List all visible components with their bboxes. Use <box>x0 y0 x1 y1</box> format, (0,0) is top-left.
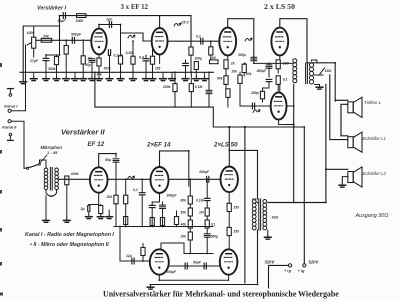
ground lower 1 <box>147 285 154 289</box>
resistor chain-A 3 <box>188 220 192 228</box>
ground bus 13 <box>149 77 156 81</box>
capacitor 500pF coupling <box>72 37 74 43</box>
wire mid right cap leads <box>268 63 270 65</box>
resistor chain-A 4 <box>188 232 192 240</box>
resistor 100 ls50 cathode <box>210 60 219 64</box>
coil Tin primary <box>44 168 48 190</box>
svg-text:280µ: 280µ <box>250 91 259 95</box>
wire V6 cathode <box>98 193 100 205</box>
wire cathode V2 res leads <box>152 50 154 56</box>
wire switch to transformer <box>40 160 47 168</box>
wire Kanal II to input switch <box>11 121 24 166</box>
wire long B+ vertical <box>244 127 246 283</box>
svg-text:2×LS 50: 2×LS 50 <box>213 142 238 149</box>
capacitor 50u V6 anode <box>113 159 119 162</box>
ground T-in left <box>43 218 50 222</box>
svg-text:EF 12: EF 12 <box>88 141 105 148</box>
wire 300k leads <box>56 55 58 57</box>
svg-text:12µ: 12µ <box>126 254 132 258</box>
resistor cathode V1 <box>97 58 101 66</box>
svg-text:17µF: 17µF <box>30 59 39 63</box>
svg-text:9,1: 9,1 <box>283 78 288 82</box>
wire bottom run <box>150 284 258 286</box>
svg-text:300µF: 300µF <box>166 270 177 274</box>
resistor cathode V6 <box>99 206 103 214</box>
wire L2 ground stub <box>342 177 348 183</box>
wire splitter parts <box>185 60 187 63</box>
scan mark bottom left <box>0 293 3 296</box>
resistor 50k bleeder <box>224 76 228 85</box>
resistor 50k anode load V1 <box>118 56 122 64</box>
svg-text:520V: 520V <box>309 259 320 264</box>
capacitor 280u <box>266 79 272 81</box>
wire V1 anode <box>99 25 121 29</box>
wire cathode cap V1 lead <box>91 62 93 72</box>
signal arrow V6-V7 <box>128 176 135 179</box>
svg-text:20k: 20k <box>231 70 239 74</box>
capacitor mid right <box>266 65 272 68</box>
resistor cathode LS50-2 <box>276 60 280 69</box>
capacitor 2uF cathode V6 <box>88 206 90 212</box>
wire cath v7 <box>152 201 159 203</box>
wire LS50-1 anode loop <box>228 19 254 57</box>
svg-text:1M: 1M <box>199 211 204 215</box>
svg-text:50µF: 50µF <box>58 19 67 23</box>
svg-text:2 x LS 50: 2 x LS 50 <box>264 2 295 11</box>
svg-text:Eckmiller L2: Eckmiller L2 <box>363 171 387 176</box>
ground bus 16 <box>182 77 189 81</box>
capacitor 50uF feedback <box>63 13 65 19</box>
resistor 0.1M right <box>189 84 193 92</box>
wire middle column top <box>253 57 255 64</box>
wire T-in bottom loop <box>46 190 57 197</box>
resistor chain-B 3 <box>205 220 209 228</box>
svg-text:30Ω: 30Ω <box>272 216 279 220</box>
wire LS50-2 cathode <box>279 56 281 60</box>
wire chain-B spine <box>206 179 208 198</box>
wire T1 top to speaker rail <box>312 60 317 63</box>
coil T2 primary <box>252 200 256 230</box>
resistor mid 50k <box>242 64 246 72</box>
svg-text:1 : 45: 1 : 45 <box>47 150 58 155</box>
svg-text:100: 100 <box>210 56 216 60</box>
tube V3 EF12 phase splitter <box>271 92 287 119</box>
tube V9 EF14 <box>150 249 169 274</box>
wire stopper to V10 <box>228 236 230 250</box>
wire mid col to transformer <box>254 62 293 64</box>
wire L2 feed branch <box>326 168 348 170</box>
capacitor 12u V9 grid <box>132 258 134 264</box>
wire V6 output line <box>108 178 151 180</box>
wire lower bus <box>114 226 213 228</box>
resistor 150 grid stopper 2 <box>227 227 231 235</box>
wire V2 output line <box>168 40 220 42</box>
capacitor 17uF <box>43 58 49 60</box>
wire grid leak stub <box>142 244 144 248</box>
svg-text:50k: 50k <box>181 211 187 215</box>
svg-text:6,4: 6,4 <box>139 55 144 59</box>
wire 280u lead <box>268 82 270 88</box>
transformer T2 core <box>259 199 261 230</box>
svg-text:300k: 300k <box>48 67 57 71</box>
wire V1 cathode <box>98 54 100 58</box>
wire cap leads v6 <box>141 179 143 192</box>
junction dots on signal and bus lines <box>59 39 61 41</box>
ground 400k <box>64 218 71 222</box>
resistor bus row 4 <box>174 217 178 225</box>
svg-text:20k: 20k <box>180 235 187 239</box>
wire V1 anode load <box>120 25 122 56</box>
svg-text:200k: 200k <box>162 85 172 89</box>
resistor 20k splitter <box>238 75 242 83</box>
resistor screen LS50-2 <box>276 76 280 85</box>
svg-text:500µ: 500µ <box>104 66 111 70</box>
wire mid 50k leads <box>243 62 245 65</box>
resistor below 50k <box>226 89 230 98</box>
svg-text:Universalverstärker für Mehrka: Universalverstärker für Mehrkanal- und s… <box>103 289 339 298</box>
ground bus 14 <box>160 77 167 81</box>
wire T-in left leg <box>45 196 47 218</box>
signal arrow after V1 <box>128 35 135 38</box>
resistor 300 splitter <box>194 62 198 70</box>
wire between stoppers <box>228 212 230 228</box>
wire ecap elbow leads <box>208 72 210 90</box>
wire 50k bleeder leads <box>225 72 227 76</box>
capacitor cathode V7 <box>149 205 155 207</box>
wire LS50-2 cathode lead <box>277 69 279 73</box>
resistor 1M <box>81 56 85 64</box>
wire V6 anode cap lead <box>115 162 117 195</box>
svg-text:300µ: 300µ <box>238 53 246 57</box>
ground bus 6 <box>80 77 87 81</box>
tube V7 EF14 <box>151 167 169 193</box>
svg-text:Kanal II: Kanal II <box>2 125 17 130</box>
wire T1 secondary drop 1 <box>330 75 348 140</box>
wire grid res V3 leads <box>210 41 212 47</box>
wire 0.5M leads <box>125 179 127 195</box>
ground bus 3 <box>53 77 60 81</box>
wire cathode verticals <box>88 205 90 206</box>
svg-text:80k: 80k <box>181 199 187 203</box>
resistor chain-A 1 <box>188 196 192 204</box>
svg-text:500µ: 500µ <box>211 235 219 239</box>
ground bus 2 <box>43 77 50 81</box>
wire V9 to V10 coupling <box>169 265 220 267</box>
ground L2 <box>339 183 346 187</box>
wire V2 cathode components <box>159 55 161 64</box>
speaker Tiefton L <box>348 97 362 117</box>
resistor bus row 1 <box>124 217 128 225</box>
junction anode branch <box>228 126 230 128</box>
svg-text:380µF: 380µF <box>257 69 268 73</box>
scan mark left edge 5 <box>0 262 2 266</box>
svg-text:Tiefton L: Tiefton L <box>364 100 382 105</box>
capacitor coupling V2-V3 <box>201 38 203 44</box>
coil T1 secondary <box>309 63 313 84</box>
wire 200k leads <box>174 72 176 83</box>
svg-text:200: 200 <box>106 195 113 199</box>
tube V8 LS50 <box>221 167 238 193</box>
wire below-50k lead <box>227 97 229 107</box>
svg-text:Ausgang 30Ω: Ausgang 30Ω <box>355 213 389 219</box>
capacitor near step elbow <box>206 90 212 93</box>
resistor 0.2M <box>131 56 135 64</box>
wire stub g3 <box>108 210 110 215</box>
wire top-amp ground bus <box>20 71 213 73</box>
capacitor chain-B 1 <box>204 198 210 200</box>
wire cathode res V1 lead <box>98 66 100 72</box>
potentiometer 1000-ohm volume <box>27 26 36 57</box>
speaker Eckmiller L1 <box>348 132 362 152</box>
wire V8 anode rail <box>229 150 257 199</box>
svg-text:165: 165 <box>155 66 161 70</box>
ground V6 cath 2 <box>97 215 104 219</box>
wire 320V lead <box>269 265 289 288</box>
terminal Kanal II <box>8 120 11 123</box>
wire screen cap V1 <box>109 55 111 72</box>
ground bus 12 <box>143 77 150 81</box>
wire V7 output <box>169 178 221 180</box>
wire mid feedback step line <box>95 72 304 127</box>
resistor 20k series <box>41 38 52 42</box>
capacitor 300u mid <box>251 57 257 60</box>
scan mark left edge 3 <box>0 190 2 194</box>
svg-text:400k: 400k <box>70 172 80 176</box>
wire input top run <box>23 26 59 79</box>
svg-text:25 V: 25 V <box>181 21 190 25</box>
junction L2 branch <box>325 168 327 170</box>
wire V1 anode load bottom <box>120 64 122 72</box>
tube V6 EF12 <box>90 167 108 192</box>
coil T1 primary <box>293 59 297 83</box>
svg-text:+ I g: + I g <box>284 269 292 273</box>
resistor 150 grid stopper 1 <box>227 203 231 211</box>
capacitor screen V1 <box>108 50 110 56</box>
wire 1M leads <box>82 40 84 56</box>
ground bus 18 <box>201 77 208 81</box>
junction splitter cathode <box>293 123 295 125</box>
terminal post Kanal I top <box>8 89 14 97</box>
ground T2 <box>265 235 272 239</box>
ground bus 10 <box>117 77 124 81</box>
wire T1 tap 15ohm <box>315 74 324 76</box>
svg-text:Eckmiller L1: Eckmiller L1 <box>363 136 387 141</box>
signal arrow 25V <box>174 23 181 26</box>
wire V7 screen drop <box>188 160 190 186</box>
svg-text:0,1M: 0,1M <box>195 85 203 89</box>
wire LS50-2 anode loop <box>280 19 307 63</box>
coil Tin secondary <box>55 168 59 190</box>
wire speaker1 feed <box>335 99 348 101</box>
svg-text:Kanal I - Radio oder Magneto: Kanal I - Radio oder Magnetophon I <box>25 232 114 238</box>
wire V2 anode to rail <box>159 16 161 28</box>
svg-text:• II - Mikro oder Magnetoph: • II - Mikro oder Magnetophon II <box>30 242 109 248</box>
coil T2 secondary <box>263 200 267 230</box>
svg-text:300µ: 300µ <box>195 56 203 60</box>
wire feedback rail <box>60 15 192 17</box>
wire 0.2M leads <box>132 41 134 56</box>
wire V9 cathode <box>159 275 228 281</box>
resistor 2k cathode LS50-1 <box>224 60 228 69</box>
resistor chain-A 2 <box>188 208 192 216</box>
capacitor coupling V9-V10 <box>185 263 187 269</box>
wire ecap lead v7 <box>162 202 164 205</box>
wire V9 anode <box>161 243 184 254</box>
wire splitter anode <box>279 85 281 93</box>
resistor cathode V2 <box>150 56 154 64</box>
wire splitter output right <box>287 105 294 107</box>
capacitor 50uF coupling 2 <box>204 263 206 269</box>
wire speaker1 second terminal to L1 <box>341 104 348 136</box>
svg-text:150: 150 <box>233 230 239 234</box>
svg-text:0,2M: 0,2M <box>126 51 134 55</box>
ground bus 15 <box>169 77 176 81</box>
svg-text:Verstärker I: Verstärker I <box>37 6 66 12</box>
wire lead to bottom bus <box>115 204 117 227</box>
resistor at feedback drop <box>189 47 193 55</box>
resistor chain-B 2 <box>205 208 209 216</box>
wire signal line stage1 grid <box>36 39 92 41</box>
wire mid lower leads <box>262 88 264 91</box>
wire screen res lead <box>277 84 279 93</box>
wire V9 grid line <box>120 227 150 262</box>
svg-text:50µ: 50µ <box>105 158 111 162</box>
scan mark left edge 1 <box>0 63 2 67</box>
resistor 400k grid V6 <box>65 176 69 185</box>
terminal 320V <box>288 264 291 267</box>
tube V10 LS50 <box>220 249 238 274</box>
junction B+ branch <box>244 126 246 128</box>
capacitor 6.4 cathode V2 <box>143 59 149 61</box>
resistor 0.5M <box>124 195 128 204</box>
svg-text:320V: 320V <box>265 259 276 264</box>
signal arrow between LS50s <box>245 38 252 41</box>
svg-text:0,1M: 0,1M <box>196 199 204 203</box>
wire chain-A spine <box>189 179 191 196</box>
svg-text:300µF: 300µF <box>199 170 210 174</box>
tube V2 EF12 <box>152 28 168 55</box>
resistor mid lower <box>260 91 264 99</box>
capacitor splitter grid <box>252 103 254 109</box>
transformer T-in core <box>50 168 52 191</box>
ground bus 7 <box>89 77 96 81</box>
ground bus 4 <box>63 77 70 81</box>
ground bus 11 <box>130 77 137 81</box>
resistor 3000 feedback <box>77 14 87 18</box>
wire bus row 4 stub <box>176 211 178 217</box>
wire 0.1M leads <box>190 72 192 83</box>
ground input pot <box>20 80 27 84</box>
switch input selector <box>24 163 40 169</box>
ground bus 17 <box>193 77 200 81</box>
svg-text:2×EF 14: 2×EF 14 <box>146 142 171 149</box>
resistor 200k left <box>173 84 177 92</box>
terminal Kanal I <box>8 109 11 112</box>
tube V5 LS50 <box>271 28 288 56</box>
transformer T1 core <box>306 63 308 84</box>
capacitor 1uF anode <box>109 22 111 28</box>
svg-text:1µF: 1µF <box>106 18 113 22</box>
wire feedback resistor lead <box>190 55 192 72</box>
tube V4 LS50 <box>219 28 236 56</box>
wire V7 anode loop <box>160 151 189 167</box>
svg-text:15Ω: 15Ω <box>325 69 332 73</box>
wire T2 ground <box>267 230 269 235</box>
tube V1 EF12 <box>91 29 106 55</box>
speaker Eckmiller L2 <box>348 167 362 187</box>
svg-text:300µF: 300µF <box>167 193 178 197</box>
svg-text:0,1: 0,1 <box>196 35 201 39</box>
wire mikrophon leader <box>40 155 48 164</box>
ground bus 9 <box>106 77 113 81</box>
wire feedback right drop <box>190 16 192 47</box>
wire interstage V1-V2 <box>121 33 152 41</box>
ground bus 1 <box>30 77 37 81</box>
signal arrow splitter <box>253 110 260 113</box>
scan mark left edge 2 <box>0 150 2 154</box>
wire cathode res lead <box>100 205 102 206</box>
resistor below V6 cap <box>114 195 118 204</box>
svg-text:0,1µF: 0,1µF <box>114 54 124 58</box>
ground V6 cath 1 <box>86 215 93 219</box>
svg-text:500pF: 500pF <box>71 32 82 36</box>
wire 20k splitter lead <box>239 72 241 75</box>
resistor V9 grid leak <box>141 248 145 256</box>
svg-text:50µF: 50µF <box>193 260 202 264</box>
junction T-in bottom <box>50 195 52 197</box>
ground V6 cath 3 <box>106 215 113 219</box>
ground bus 5 <box>72 77 79 81</box>
svg-text:Verstärker II: Verstärker II <box>61 127 106 136</box>
wire 520V drop <box>303 127 305 264</box>
wire branch to LS50 pair anode rail <box>228 127 230 166</box>
wire splitter grid <box>248 105 271 107</box>
svg-text:6,5: 6,5 <box>252 198 257 202</box>
resistor 600k grid leak <box>64 46 68 55</box>
wire 600k leads <box>65 40 67 45</box>
capacitor 0.1uF v6 line <box>139 193 145 195</box>
wire 400k leads <box>66 185 68 218</box>
capacitor splitter <box>183 63 189 65</box>
svg-text:2µ: 2µ <box>80 207 85 211</box>
terminal 520V <box>303 264 306 267</box>
resistor 300k <box>54 57 58 65</box>
wire right B+ vertical <box>293 85 295 203</box>
ground bus 8 <box>96 77 103 81</box>
wire cap 6.4 leads <box>145 55 147 59</box>
scan mark left edge 4 <box>0 228 2 232</box>
wire 17uF leads <box>45 55 47 58</box>
wire V10 anode side <box>257 230 259 285</box>
wire splitter grid drop <box>240 84 248 107</box>
resistor bus row 3 <box>160 218 164 226</box>
wire T1 secondary drop 2 to T2 <box>268 85 326 203</box>
wire T1 bottom tap <box>315 84 320 86</box>
wire T1 top rail <box>307 63 335 101</box>
capacitor 50u cathode V1 <box>89 59 95 62</box>
capacitor chain-B 4 <box>204 234 210 237</box>
wire feedback drop <box>59 16 61 41</box>
wire grid stopper column <box>228 192 230 203</box>
wire LS50-1 cathode <box>227 56 229 60</box>
capacitor ecap cathode V7 <box>160 205 166 208</box>
wire T-in secondary to grid <box>59 178 90 180</box>
svg-text:1000: 1000 <box>27 31 35 35</box>
wire V10 cathode <box>228 275 230 281</box>
wire chains bottom <box>184 253 213 255</box>
svg-text:0,1: 0,1 <box>133 188 138 192</box>
svg-text:1M: 1M <box>87 56 92 60</box>
